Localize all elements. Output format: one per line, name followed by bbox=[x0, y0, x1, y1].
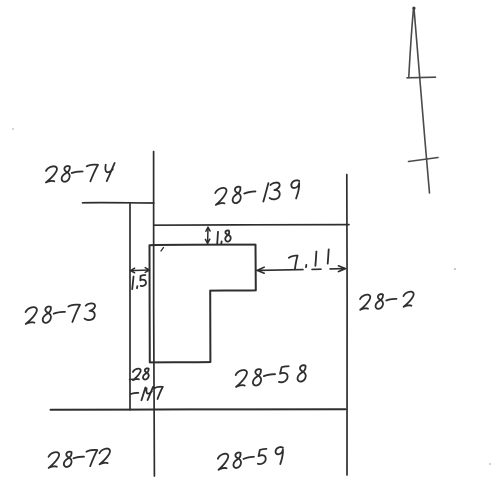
label 1.5 bbox=[130, 275, 147, 289]
parcel label 28-59 bbox=[218, 447, 283, 472]
property line west (vertical x=153.5) bbox=[152, 152, 155, 477]
property line east (vertical x=347) bbox=[346, 175, 348, 476]
north arrow tip dot bbox=[412, 7, 415, 10]
dimension arrow 1.5 (horizontal) bbox=[131, 268, 150, 273]
north arrow head base bar bbox=[407, 76, 436, 79]
north arrow head left edge bbox=[409, 9, 414, 77]
north arrow shaft bbox=[414, 9, 430, 194]
building footprint (L-shape) bbox=[150, 245, 256, 363]
boundary line south (horizontal y=409.5) bbox=[51, 408, 346, 411]
scan speck bbox=[489, 463, 491, 465]
parcel label 28-72 bbox=[48, 448, 111, 469]
parcel label 28-2 bbox=[359, 291, 414, 310]
label 1.8 bbox=[215, 230, 231, 245]
parcel label 28-73 bbox=[25, 303, 96, 325]
boundary line top-left (horizontal y=203) bbox=[83, 202, 155, 204]
label 7.11 bbox=[289, 249, 332, 270]
dimension arrow 7.11 (horizontal, dashed) bbox=[257, 266, 345, 273]
strip line (vertical x=130) bbox=[129, 204, 131, 410]
scan speck bbox=[12, 128, 14, 130]
parcel label 28-74 bbox=[45, 163, 115, 184]
scan speck bbox=[454, 268, 456, 270]
stray tick inside building bbox=[161, 248, 164, 252]
parcel label 28 (strip, line 1) bbox=[132, 368, 149, 381]
parcel label -147 (strip, line 2) bbox=[130, 386, 163, 401]
dimension arrow 1.8 (vertical) bbox=[205, 227, 210, 243]
parcel label 28-58 bbox=[235, 365, 306, 388]
parcel label 28-139 bbox=[215, 180, 300, 207]
tick on strip line bbox=[130, 378, 138, 381]
north arrow cross tick bbox=[409, 158, 439, 162]
boundary line north (horizontal y=225) bbox=[154, 224, 349, 227]
